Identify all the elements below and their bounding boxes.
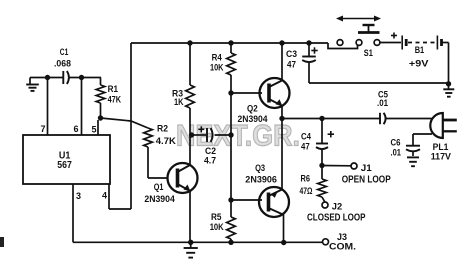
svg-text:47: 47 — [301, 141, 310, 152]
svg-text:R6: R6 — [301, 174, 311, 185]
svg-text:Q3: Q3 — [255, 163, 265, 174]
svg-text:47Ω: 47Ω — [300, 186, 313, 197]
svg-text:47K: 47K — [108, 94, 122, 105]
svg-text:3: 3 — [76, 191, 81, 201]
svg-text:S1: S1 — [364, 48, 374, 59]
svg-text:2N3906: 2N3906 — [245, 175, 277, 186]
svg-text:2N3904: 2N3904 — [238, 114, 269, 125]
svg-text:Q2: Q2 — [247, 103, 258, 114]
svg-text:5: 5 — [91, 125, 96, 135]
svg-text:CLOSED LOOP: CLOSED LOOP — [307, 213, 366, 224]
svg-text:J2: J2 — [332, 202, 342, 213]
svg-text:6: 6 — [73, 124, 78, 134]
svg-text:OPEN LOOP: OPEN LOOP — [342, 174, 391, 185]
svg-text:1K: 1K — [174, 97, 184, 108]
svg-text:567: 567 — [57, 160, 72, 171]
svg-text:COM.: COM. — [329, 242, 356, 253]
svg-text:C1: C1 — [60, 47, 69, 58]
svg-text:4: 4 — [102, 191, 107, 201]
svg-text:4.7K: 4.7K — [156, 136, 176, 147]
svg-text:117V: 117V — [431, 151, 452, 162]
svg-text:C3: C3 — [286, 49, 297, 60]
svg-text:J1: J1 — [361, 163, 373, 174]
svg-text:.068: .068 — [54, 59, 71, 70]
svg-text:4.7: 4.7 — [204, 156, 216, 167]
svg-text:7: 7 — [40, 124, 45, 134]
svg-text:+9V: +9V — [409, 58, 429, 69]
svg-text:47: 47 — [287, 60, 296, 71]
svg-text:2N3904: 2N3904 — [144, 194, 175, 205]
svg-text:.01: .01 — [391, 148, 402, 159]
svg-text:10K: 10K — [210, 222, 224, 233]
svg-text:Q1: Q1 — [154, 182, 164, 193]
svg-text:R2: R2 — [157, 123, 168, 134]
svg-text:B1: B1 — [415, 45, 425, 56]
svg-text:10K: 10K — [210, 62, 224, 73]
svg-text:.01: .01 — [377, 98, 389, 109]
